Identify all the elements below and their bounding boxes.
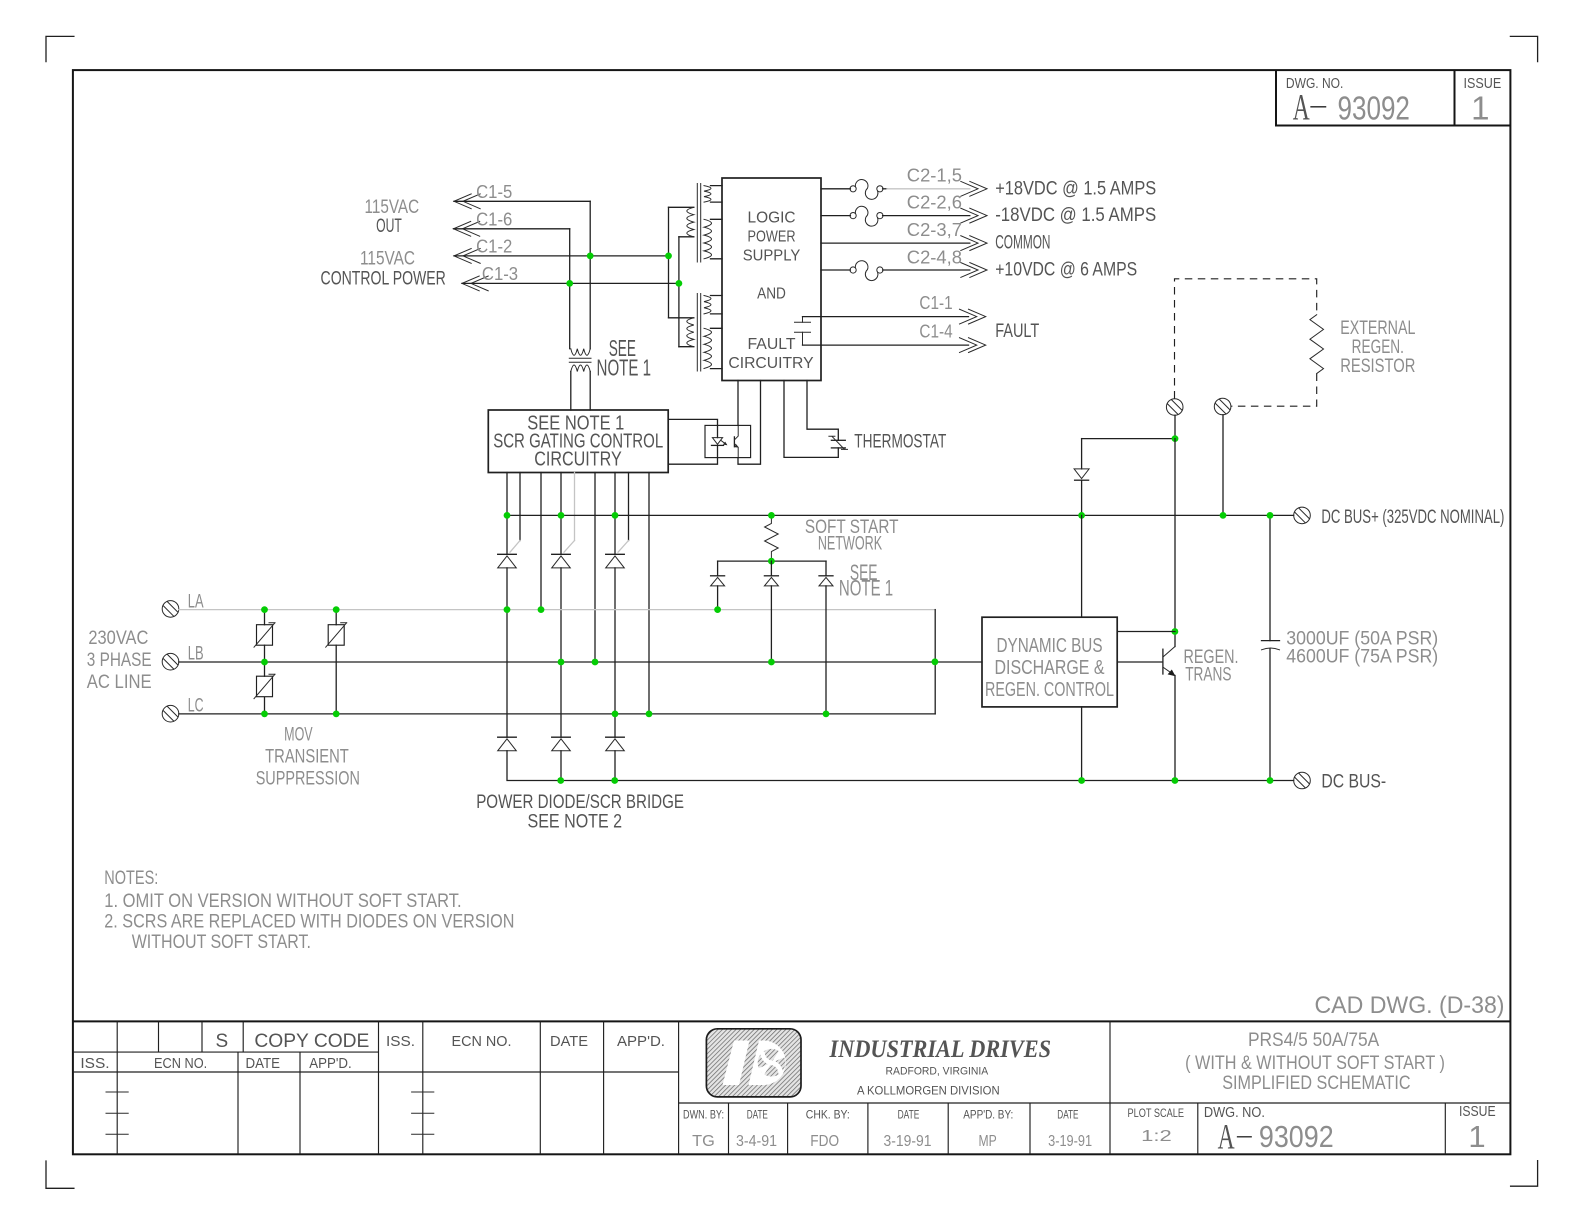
svg-text:EXTERNAL: EXTERNAL [1340,318,1415,339]
junction LB/RV1 [261,659,268,666]
svg-text:DATE: DATE [550,1033,588,1050]
svg-text:DC BUS+ (325VDC NOMINAL): DC BUS+ (325VDC NOMINAL) [1321,507,1504,528]
wire SCR2 gate [574,473,576,541]
wire SCR3 gate [628,473,630,541]
svg-text:CIRCUITRY: CIRCUITRY [728,355,814,372]
terminal DC BUS- [1294,772,1311,789]
transformer T2 primary winding [669,318,694,347]
wire MOV column 1 [264,610,266,625]
svg-text:3-4-91: 3-4-91 [736,1133,777,1150]
SCR Q1 [498,553,517,555]
svg-text:AND: AND [757,285,786,302]
svg-text:SEE NOTE 2: SEE NOTE 2 [528,812,623,833]
diode D5 [764,575,778,577]
node C1-4 [960,338,986,353]
resistor R1 soft start [765,515,779,561]
wire D4 to LA [717,586,719,610]
opto transistor [733,437,735,447]
wire C1-3 [462,282,679,284]
transformer T3 core [569,357,591,359]
svg-text:NOTE 1: NOTE 1 [597,355,652,381]
diode D1 [498,736,517,738]
svg-text:LOGIC: LOGIC [748,209,796,226]
wire SCR1 anode to LA [506,568,508,610]
revision tick marks left [106,1091,128,1093]
wire bus+ to dynamic block [1081,515,1083,617]
svg-text:C2-2,6: C2-2,6 [907,193,962,213]
terminal ext-regen 1 [1166,399,1183,416]
wire SCR3 cathode column [614,473,616,555]
wire C1-6 [454,228,570,230]
junction bus+/SCR1 [504,512,511,519]
junction LA/feed [538,606,545,613]
diode D4 [711,575,725,577]
junction LB/SCR2 [558,659,565,666]
capacitor C1 [1262,640,1280,642]
SCR Q3 [606,553,625,555]
wire SCR3 anode to LC [614,568,616,714]
svg-text:DATE: DATE [246,1055,281,1072]
junction ext1/branch [1172,435,1179,442]
node C1-3 [462,276,488,291]
svg-text:C1-5: C1-5 [476,182,512,202]
border frame corner tick top-right [1510,36,1537,61]
wire SCR1 cathode column [506,473,508,555]
block U4 DYNAMIC BUS DISCHARGE & REGEN. CONTROL [982,617,1117,707]
svg-text:REGEN.: REGEN. [1352,337,1404,358]
junction LC/RV2 [333,711,340,718]
wire T3 secondary to SCR gating box [570,372,572,411]
svg-text:C2-3,7: C2-3,7 [907,220,962,240]
block U2 SCR GATING CONTROL CIRCUITRY [488,410,668,473]
svg-text:C2-4,8: C2-4,8 [907,247,962,267]
wire SCR1 gate [519,473,521,541]
wire rail to D4 [717,561,719,576]
border frame corner tick bottom-left [46,1161,74,1188]
junction D4/LA [714,606,721,613]
node C2-2,6 [961,208,987,223]
revision table line A [73,1051,379,1053]
wire -18VDC output [821,215,850,217]
svg-text:FAULT: FAULT [995,321,1039,342]
junction C1-3 primary [676,280,683,287]
svg-text:PLOT SCALE: PLOT SCALE [1128,1108,1185,1120]
svg-text:DC BUS-: DC BUS- [1321,772,1386,793]
node C1-2 [454,249,480,264]
external regen resistor dashed outline [1175,279,1317,399]
node C2-3,7 [961,236,987,251]
svg-text:INDUSTRIAL DRIVES: INDUSTRIAL DRIVES [829,1036,1051,1063]
title area divider [1109,1021,1111,1103]
svg-text:ECN NO.: ECN NO. [452,1033,512,1050]
junction R1/rail [768,558,775,565]
wire LA to diode D1 [506,610,508,738]
varistor RV2 [328,625,344,646]
svg-text:93092: 93092 [1338,90,1410,127]
svg-text:NETWORK: NETWORK [818,534,883,555]
wire capacitor to bus- [1269,649,1271,781]
svg-text:POWER: POWER [748,229,796,246]
svg-text:C2-1,5: C2-1,5 [907,166,962,186]
junction D7/bus+ [1078,512,1085,519]
svg-text:TRANSIENT: TRANSIENT [265,747,349,768]
svg-text:C1-1: C1-1 [919,293,952,313]
terminal LB [162,653,179,670]
svg-text:AC LINE: AC LINE [87,672,152,693]
svg-text:+10VDC @ 6 AMPS: +10VDC @ 6 AMPS [995,260,1137,281]
opto LED [717,425,719,437]
svg-text:( WITH & WITHOUT SOFT START ): ( WITH & WITHOUT SOFT START ) [1185,1053,1445,1074]
svg-text:ECN NO.: ECN NO. [154,1055,207,1072]
junction LB/feed [592,659,599,666]
transformer T1 primary winding [669,207,694,237]
junction emitter/bus- [1172,777,1179,784]
svg-text:3 PHASE: 3 PHASE [87,650,152,671]
svg-text:OUT: OUT [376,216,402,237]
junction LC/feed [646,711,653,718]
wire D5 to LB [770,586,772,662]
junction C1-6/C1-3 [566,280,573,287]
wire phase LC [179,713,935,715]
diode D6 [819,575,833,577]
SCR Q2 [552,553,571,555]
junction bus+/R1 [768,512,775,519]
fuse F3 [850,267,856,273]
junction cap/bus+ [1267,512,1274,519]
junction LC/RV3 [261,711,268,718]
title block top line [73,1020,1511,1022]
resistor R2 external regen zigzag [1310,315,1324,374]
revision tick marks right [412,1091,434,1093]
transformer T3 (SEE NOTE 1) primary [571,349,590,356]
wire logic block to thermostat (top) [807,381,838,441]
top DWG NO box [1276,70,1510,125]
wire C1-5 [454,200,590,202]
junction LA/RV2 [333,606,340,613]
svg-text:APP'D. BY:: APP'D. BY: [963,1108,1013,1122]
wire C1-1 [803,316,969,318]
svg-text:A: A [1293,88,1310,129]
svg-text:DISCHARGE &: DISCHARGE & [995,657,1106,679]
terminal ext-regen 2 [1214,398,1231,415]
junction D3/bus- [611,777,618,784]
svg-text:C1-3: C1-3 [482,264,518,284]
diode D3 [606,736,625,738]
junction LC/SCR3 [612,711,619,718]
node C1-1 [960,309,986,324]
svg-text:REGEN. CONTROL: REGEN. CONTROL [985,679,1114,701]
wire D3 to DC bus- [614,751,616,781]
svg-text:DATE: DATE [747,1108,768,1122]
svg-text:CIRCUITRY: CIRCUITRY [534,449,622,471]
wire phase LB [179,661,982,663]
wire COMMON output [821,242,970,244]
svg-text:CONTROL POWER: CONTROL POWER [321,269,446,290]
transformer T2 core [696,294,698,372]
thermostat S1 [831,439,845,441]
svg-text:SUPPLY: SUPPLY [743,247,801,264]
junction collector/drive [1172,628,1179,635]
svg-text:PRS4/5 50A/75A: PRS4/5 50A/75A [1248,1030,1380,1051]
svg-text:1: 1 [1468,1119,1485,1154]
fuse F1 [850,186,856,192]
junction LA/SCR1 [504,606,511,613]
wire ext-regen 2 to bus+ [1222,415,1224,516]
svg-text:1: 1 [1471,90,1489,127]
svg-text:RADFORD, VIRGINIA: RADFORD, VIRGINIA [886,1066,989,1078]
wire D7 to bus+ [1081,480,1083,515]
svg-text:C1-6: C1-6 [476,210,512,230]
svg-text:115VAC: 115VAC [365,197,420,218]
revision table line B [73,1071,679,1073]
svg-text:APP'D.: APP'D. [309,1055,351,1072]
svg-text:ISS.: ISS. [386,1033,415,1050]
junction ext2/bus+ [1220,512,1227,519]
wire rail to D6 [825,561,827,576]
varistor RV1 [257,625,273,646]
junction bus+/SCR2 [558,512,565,519]
svg-text:MP: MP [979,1133,997,1150]
wire primary bus right (C1-3 net) [678,237,680,347]
svg-text:ISS.: ISS. [80,1055,109,1072]
wire rail to D5 [770,561,772,576]
wire LB to diode D2 [560,662,562,737]
wire +18VDC output [821,188,850,190]
wire opto emitter loop [738,381,761,465]
transformer T2 secondary winding C [711,296,723,314]
svg-text:ISSUE: ISSUE [1459,1103,1496,1120]
wire phase LB feed [594,473,596,663]
wire right-side phase tie vertical [934,610,936,714]
wire C1-2 [454,255,669,257]
junction dyn/bus- [1078,777,1085,784]
capacitor C-fault inside block [802,317,804,323]
node C1-6 [454,221,480,236]
varistor RV3 [257,676,273,697]
opto-isolator U3 [705,425,751,457]
junction C1-5/C1-2 [587,253,594,260]
border frame corner tick bottom-right [1511,1161,1538,1187]
svg-text:DYNAMIC BUS: DYNAMIC BUS [997,635,1103,657]
wire collector column [1174,439,1176,647]
revision table row1 verticals [116,1021,118,1154]
svg-text:3-19-91: 3-19-91 [884,1133,932,1150]
signature strip verticals [728,1103,730,1154]
wire phase LA [179,609,935,611]
junction LA/RV1 [261,606,268,613]
svg-text:+18VDC @ 1.5 AMPS: +18VDC @ 1.5 AMPS [995,178,1156,199]
node C1-5 115VAC out [454,194,480,209]
junction D6/LC [823,711,830,718]
svg-text:115VAC: 115VAC [360,249,415,270]
svg-text:THERMOSTAT: THERMOSTAT [854,432,946,453]
terminal DC BUS+ [1294,507,1311,524]
svg-text:MOV: MOV [284,725,313,746]
diode D7 regen clamp (cathode down) [1074,469,1089,479]
svg-text:C1-2: C1-2 [476,237,512,257]
svg-text:-18VDC @ 1.5 AMPS: -18VDC @ 1.5 AMPS [995,205,1156,226]
svg-text:SUPPRESSION: SUPPRESSION [256,769,360,790]
svg-text:4600UF (75A PSR): 4600UF (75A PSR) [1286,647,1438,668]
svg-text:TG: TG [692,1133,715,1150]
wire D2 to DC bus- [560,751,562,781]
transformer T1 core [696,184,698,263]
svg-text:NOTE 1: NOTE 1 [839,576,893,601]
wire SCR box to opto LED [668,419,717,425]
svg-text:CHK. BY:: CHK. BY: [806,1108,850,1122]
transformer T1 secondary winding A [711,186,723,203]
wire logic block to thermostat (bottom) [784,381,838,458]
svg-text:93092: 93092 [1259,1119,1334,1154]
terminal LC [162,705,179,722]
wire phase LA feed [540,473,542,610]
wire drive to collector node [1117,631,1175,633]
svg-text:FAULT: FAULT [748,336,796,353]
svg-text:DATE: DATE [898,1108,920,1122]
wire SCR2 anode to LB [560,568,562,662]
svg-text:APP'D.: APP'D. [617,1033,665,1050]
wire regen diode branch [1082,438,1175,440]
wire MOV column 2 [335,610,337,625]
wire C1-4 [803,344,969,346]
node C2-4,8 [961,263,987,278]
svg-text:A KOLLMORGEN DIVISION: A KOLLMORGEN DIVISION [857,1084,1000,1098]
junction D2/bus- [557,777,564,784]
wire base drive [1117,661,1162,663]
revision table lower verticals [237,1052,239,1154]
wire phase LC feed [648,473,650,714]
title block signature strip line [679,1102,1511,1104]
wire D1 to DC bus- [507,751,1294,781]
svg-text:POWER DIODE/SCR BRIDGE: POWER DIODE/SCR BRIDGE [476,792,684,813]
block U1 LOGIC POWER SUPPLY AND FAULT CIRCUITRY [722,178,821,381]
svg-text:CAD DWG. (D-38): CAD DWG. (D-38) [1315,992,1505,1019]
junction cap/bus- [1267,777,1274,784]
svg-text:DWN. BY:: DWN. BY: [683,1108,724,1122]
wire soft start rail [718,560,826,562]
wire ext-regen 1 down [1174,415,1176,438]
transformer T2 secondary winding D [711,328,723,368]
wire branch to diode D7 [1081,439,1083,469]
svg-text:DATE: DATE [1057,1108,1078,1122]
wire DC bus+ [507,514,1294,516]
node C2-1,5 [961,181,987,196]
junction D5/LB [768,659,775,666]
svg-text:RESISTOR: RESISTOR [1340,356,1415,377]
terminal LA [162,601,179,618]
wire opto collector to logic block [737,381,739,426]
transistor Q4 REGEN. TRANS [1162,649,1164,674]
fuse F2 [850,213,856,219]
border frame corner tick top-left [46,36,74,61]
svg-text:TRANS: TRANS [1185,665,1231,686]
wire LC to diode D3 [614,714,616,737]
wire SCR2 cathode column [560,473,562,555]
wire dynamic block to bus- [1081,707,1083,781]
svg-text:A: A [1218,1117,1235,1157]
junction LB/tie [932,658,939,665]
junction bus+/SCR3 [612,512,619,519]
svg-text:COPY CODE: COPY CODE [254,1031,369,1052]
wire bus+ to capacitor C1 [1269,515,1271,640]
svg-text:1. OMIT ON VERSION WITHOUT SOF: 1. OMIT ON VERSION WITHOUT SOFT START. [104,891,461,912]
wire emitter to bus- [1174,676,1176,781]
right revision table verticals [422,1021,424,1154]
svg-text:FDO: FDO [810,1133,839,1150]
svg-text:S: S [215,1031,228,1052]
svg-text:3-19-91: 3-19-91 [1048,1133,1092,1150]
svg-text:WITHOUT SOFT START.: WITHOUT SOFT START. [132,932,311,953]
svg-text:230VAC: 230VAC [88,628,148,649]
svg-text:NOTES:: NOTES: [104,868,158,889]
diode D2 [552,736,571,738]
transformer T3 secondary [571,365,590,372]
wire primary bus left (C1-2 net) [668,207,670,317]
junction C1-2 primary [665,253,672,260]
svg-text:COMMON: COMMON [995,233,1050,254]
wire D6 to LC [825,586,827,714]
wire +10VDC output [821,269,850,271]
svg-text:C1-4: C1-4 [919,322,952,342]
svg-text:2. SCRS ARE REPLACED WITH DIOD: 2. SCRS ARE REPLACED WITH DIODES ON VERS… [104,912,514,933]
transformer T1 secondary winding B [711,219,723,258]
svg-text:1:2: 1:2 [1141,1128,1172,1145]
svg-text:SIMPLIFIED SCHEMATIC: SIMPLIFIED SCHEMATIC [1222,1073,1410,1094]
